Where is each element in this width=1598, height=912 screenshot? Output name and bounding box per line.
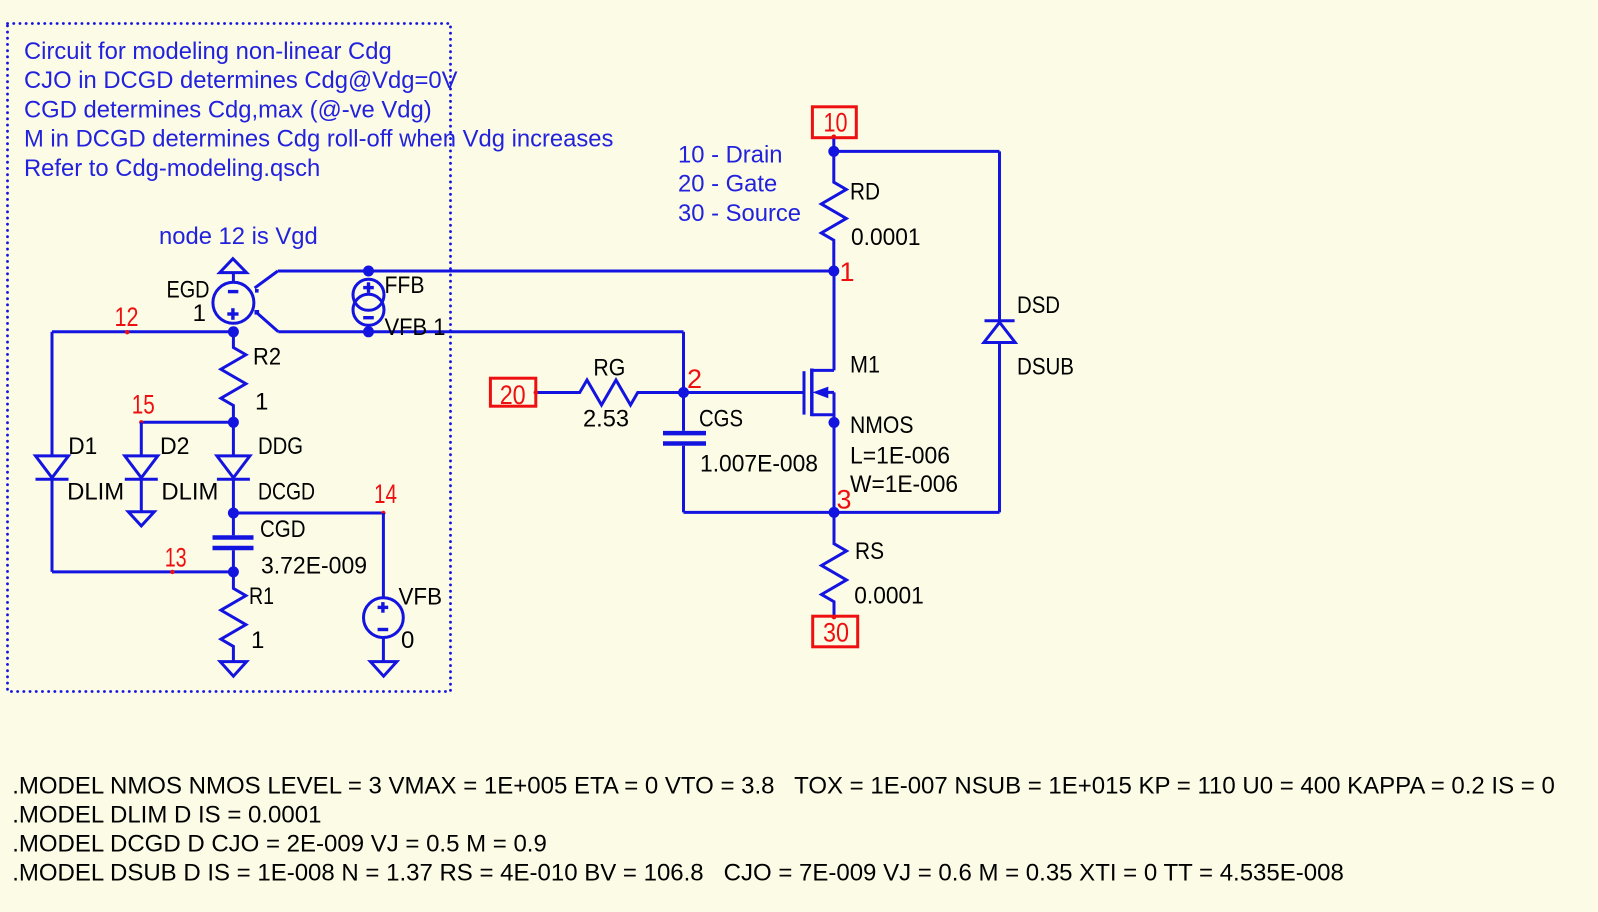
svg-text:1: 1 — [251, 627, 264, 654]
diode DDG — [217, 422, 250, 513]
wire right column upper — [998, 151, 1001, 320]
svg-text:2.53: 2.53 — [583, 406, 629, 433]
port anchor dot 20 — [534, 390, 538, 394]
svg-text:NMOS: NMOS — [850, 412, 914, 439]
svg-text:DSUB: DSUB — [1017, 354, 1074, 381]
svg-text:3: 3 — [837, 485, 852, 515]
svg-text:.MODEL DSUB D IS = 1E-008 N =: .MODEL DSUB D IS = 1E-008 N = 1.37 RS = … — [12, 859, 1344, 886]
wire node14 horizontal — [233, 512, 383, 515]
wire node12 horizontal — [52, 330, 233, 333]
junction node 14 left — [228, 508, 239, 519]
wire top rail to node 1 — [278, 270, 834, 273]
junction node 13 — [228, 566, 239, 577]
capacitor CGS — [663, 393, 706, 513]
wire node14 down to VFB — [382, 513, 385, 598]
svg-text:Refer to Cdg-modeling.qsch: Refer to Cdg-modeling.qsch — [24, 155, 320, 182]
port anchor dot 30 — [832, 615, 836, 619]
junction node 1 — [828, 266, 839, 277]
port anchor dot 10 — [832, 135, 836, 139]
svg-text:R1: R1 — [249, 583, 274, 610]
svg-text:RG: RG — [593, 355, 625, 382]
node 14 label — [374, 479, 397, 515]
wire node13 horizontal — [52, 570, 233, 573]
svg-text:VFB 1: VFB 1 — [385, 314, 446, 341]
svg-text:Circuit for modeling non-linea: Circuit for modeling non-linear Cdg — [24, 38, 392, 65]
svg-text:0.0001: 0.0001 — [851, 224, 921, 251]
junction below port 10 — [828, 146, 839, 157]
svg-text:DDG: DDG — [258, 433, 303, 460]
svg-text:L=1E-006: L=1E-006 — [850, 443, 950, 470]
junction EGD bottom — [228, 326, 239, 337]
svg-text:30: 30 — [823, 618, 849, 648]
svg-text:CGS: CGS — [699, 406, 743, 433]
svg-text:CGD: CGD — [260, 516, 306, 543]
svg-text:2: 2 — [687, 364, 702, 394]
diode D1 — [36, 332, 69, 572]
svg-text:DLIM: DLIM — [67, 479, 124, 506]
resistor R1 — [221, 572, 246, 662]
wire top right horizontal — [834, 150, 1000, 153]
svg-text:CJO in DCGD determines Cdg@Vdg: CJO in DCGD determines Cdg@Vdg=0V — [24, 67, 458, 94]
junction node 2 — [678, 387, 689, 398]
pin annotation text — [678, 142, 801, 227]
node 12 label — [115, 302, 139, 334]
wire node15 horizontal — [141, 421, 233, 424]
dotted comment box — [8, 24, 451, 692]
svg-text:0: 0 — [401, 627, 414, 654]
node 13 label — [165, 543, 187, 575]
svg-text:1.007E-008: 1.007E-008 — [700, 451, 818, 478]
svg-text:.MODEL NMOS NMOS LEVEL = 3 VMA: .MODEL NMOS NMOS LEVEL = 3 VMAX = 1E+005… — [12, 773, 1555, 800]
svg-text:1: 1 — [193, 300, 206, 327]
diode D2 — [125, 422, 158, 512]
wire EGD sense- stub — [257, 313, 279, 332]
svg-text:20: 20 — [500, 380, 526, 410]
svg-text:DSD: DSD — [1017, 292, 1060, 319]
svg-text:20 - Gate: 20 - Gate — [678, 171, 777, 198]
svg-text:node 12 is Vgd: node 12 is Vgd — [159, 223, 318, 250]
port box 30 — [813, 615, 858, 648]
ground below R1 — [220, 662, 246, 677]
resistor RD — [821, 151, 846, 271]
svg-text:DLIM: DLIM — [161, 479, 218, 506]
wire drop to node 2 — [682, 332, 685, 393]
svg-text:0.0001: 0.0001 — [854, 583, 924, 610]
svg-text:R2: R2 — [253, 344, 281, 371]
ground below D2 — [128, 512, 154, 526]
resistor R2 — [221, 332, 246, 423]
svg-text:12: 12 — [115, 302, 139, 332]
voltage source EGD — [213, 282, 259, 323]
node 15 label — [132, 390, 155, 425]
nmos M1 — [684, 271, 840, 512]
port box 20 — [490, 378, 538, 410]
svg-text:30 - Source: 30 - Source — [678, 200, 801, 227]
svg-text:RS: RS — [855, 538, 884, 565]
junction node 15 — [228, 417, 239, 428]
diode DSD — [984, 321, 1015, 513]
wire VFB to ground — [382, 638, 385, 662]
svg-text:14: 14 — [374, 479, 397, 509]
resistor RG — [536, 380, 684, 405]
wire port10 to junction — [832, 138, 835, 152]
svg-text:1: 1 — [255, 389, 268, 416]
svg-text:VFB: VFB — [399, 584, 443, 611]
ground below VFB — [370, 662, 396, 677]
svg-text:CGD determines Cdg,max (@-ve V: CGD determines Cdg,max (@-ve Vdg) — [24, 96, 432, 123]
svg-text:M1: M1 — [850, 352, 880, 379]
svg-text:10 - Drain: 10 - Drain — [678, 142, 782, 169]
annotation text block — [24, 38, 614, 182]
EGD up arrow — [220, 259, 247, 283]
current source FFB — [353, 279, 384, 325]
svg-text:.MODEL DCGD D CJO = 2E-009 VJ: .MODEL DCGD D CJO = 2E-009 VJ = 0.5 M = … — [12, 830, 547, 857]
svg-text:.MODEL DLIM D IS = 0.0001: .MODEL DLIM D IS = 0.0001 — [12, 802, 321, 829]
svg-text:FFB: FFB — [385, 272, 425, 299]
wire node 3 row — [684, 511, 1000, 514]
junction FFB bottom — [363, 326, 374, 337]
svg-text:W=1E-006: W=1E-006 — [850, 471, 958, 498]
svg-text:D2: D2 — [160, 433, 190, 460]
wire bottom rail to CGS column — [278, 330, 683, 333]
svg-text:15: 15 — [132, 390, 155, 420]
voltage source VFB — [364, 598, 404, 638]
svg-text:1: 1 — [840, 257, 855, 287]
svg-text:10: 10 — [824, 108, 848, 138]
port box 10 — [812, 107, 856, 139]
wire EGD sense+ stub — [255, 271, 278, 288]
svg-text:3.72E-009: 3.72E-009 — [261, 553, 367, 580]
svg-text:DCGD: DCGD — [258, 479, 315, 506]
capacitor CGD — [213, 513, 254, 572]
junction FFB top — [363, 266, 374, 277]
junction node 3 — [829, 507, 840, 518]
svg-text:D1: D1 — [68, 433, 97, 460]
resistor RS — [822, 512, 847, 616]
.MODEL text block — [12, 773, 1555, 887]
svg-text:RD: RD — [850, 179, 880, 206]
svg-text:M in DCGD determines Cdg roll-: M in DCGD determines Cdg roll-off when V… — [24, 126, 614, 153]
svg-text:13: 13 — [165, 543, 187, 573]
